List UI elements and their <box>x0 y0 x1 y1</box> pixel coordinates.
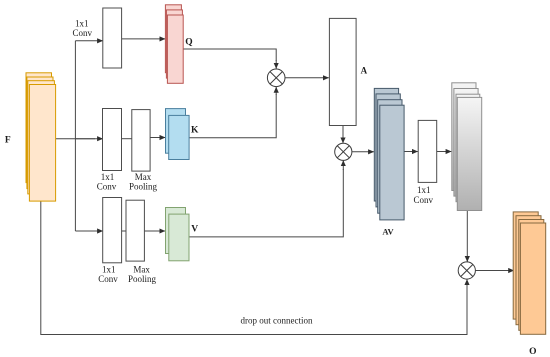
svg-text:Pooling: Pooling <box>128 274 157 284</box>
svg-text:Conv: Conv <box>97 181 117 191</box>
svg-text:Conv: Conv <box>72 28 92 38</box>
svg-text:Max: Max <box>133 265 150 275</box>
wire multiply3 to O <box>476 270 514 272</box>
wire mid pool to K <box>150 137 165 139</box>
wire gray stack to multiply3 <box>466 211 468 262</box>
multiply node 3 <box>458 262 475 279</box>
pooling block middle Max Pooling <box>132 110 150 172</box>
conv block top 1x1 Conv <box>103 8 122 68</box>
svg-text:1x1: 1x1 <box>417 185 431 195</box>
multiply node 2 <box>335 143 352 160</box>
multiply node 1 <box>267 69 285 87</box>
wire mid conv to mid pool <box>122 138 132 140</box>
wire A to multiply2 <box>342 126 344 144</box>
conv block middle 1x1 Conv <box>103 109 122 171</box>
svg-text:V: V <box>191 225 198 235</box>
svg-text:1x1: 1x1 <box>102 265 116 275</box>
svg-text:F: F <box>5 135 11 145</box>
wire trunk vertical <box>74 41 76 231</box>
svg-text:drop out connection: drop out connection <box>241 316 313 326</box>
tensor gray output stack <box>452 83 482 211</box>
wire trunk to top conv <box>75 40 103 42</box>
wire K to multiply1 <box>189 94 276 138</box>
wire 1x1 conv to gray stack <box>437 151 452 153</box>
tensor V <box>166 208 190 261</box>
tensor Q <box>165 5 183 84</box>
svg-text:1x1: 1x1 <box>75 19 89 29</box>
pooling block bottom Max Pooling <box>126 200 144 261</box>
wire multiply2 to AV <box>352 151 374 153</box>
tensor AV <box>374 88 404 220</box>
svg-text:Pooling: Pooling <box>129 181 158 191</box>
svg-text:Q: Q <box>185 38 192 48</box>
tensor O <box>513 212 546 334</box>
wire drop out connection <box>41 201 467 334</box>
wire F to middle conv <box>56 138 95 140</box>
svg-text:Conv: Conv <box>98 274 118 284</box>
wire multiply1 to A <box>285 77 329 79</box>
wire bottom conv to bottom pool <box>122 230 126 232</box>
conv block right 1x1 Conv <box>418 120 437 182</box>
wire V to multiply2 <box>189 169 343 237</box>
svg-text:AV: AV <box>382 227 394 237</box>
tensor K <box>166 109 190 160</box>
wire bottom pool to V <box>144 230 165 232</box>
svg-text:Conv: Conv <box>413 195 433 205</box>
wire Q to multiply1 <box>183 49 276 61</box>
svg-text:A: A <box>361 65 368 75</box>
svg-text:O: O <box>529 347 536 357</box>
wire trunk to bottom conv <box>75 230 103 232</box>
svg-text:K: K <box>191 125 199 135</box>
tensor F <box>26 73 56 201</box>
conv block bottom 1x1 Conv <box>103 198 122 263</box>
matrix A <box>329 18 356 125</box>
wire AV to 1x1 conv <box>404 151 418 153</box>
wire top conv to Q <box>122 38 166 40</box>
